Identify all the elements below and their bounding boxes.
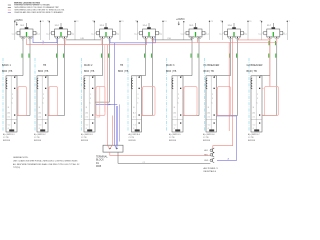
- breaker CB7 body: [264, 27, 283, 37]
- svg-text:T5: T5: [211, 21, 213, 23]
- wire CB7 left pin to TB: [260, 38, 270, 77]
- wire CB5 right pin to TB: [183, 38, 199, 115]
- breaker CB1 pins: [21, 36, 32, 38]
- svg-text:6: 6: [133, 128, 134, 130]
- wire riser left CB6: [222, 21, 223, 40]
- wire riser right CB5: [209, 21, 213, 40]
- legend row 3: [8, 10, 65, 12]
- wire CB7 right pin to TB: [262, 38, 277, 115]
- TB1 inner text: [8, 94, 14, 130]
- wire CB1 right pin to TB: [17, 38, 30, 115]
- svg-text:2: 2: [151, 39, 152, 41]
- TB7 inner text: [253, 94, 259, 130]
- wire red drop C: [228, 43, 230, 132]
- svg-text:A 4: A 4: [8, 112, 11, 115]
- svg-text:5 2: 5 2: [133, 125, 136, 127]
- svg-text:C# TB: C# TB: [81, 137, 87, 139]
- wire red bus F: [233, 38, 277, 42]
- TB5 bottom tag: [175, 129, 180, 131]
- notes block: [13, 156, 80, 169]
- wire C4B: [66, 38, 101, 40]
- svg-text:A(+) BKR B-1: A(+) BKR B-1: [3, 133, 15, 136]
- wire red bus B: [153, 38, 233, 42]
- TB2 terminal dots: [45, 77, 46, 124]
- breaker CB5 pin tags: [191, 39, 199, 41]
- svg-text:ALL NEW WIRE TERMINATIONS SHAL: ALL NEW WIRE TERMINATIONS SHALL USE RING…: [13, 163, 80, 166]
- svg-text:BANK 1: BANK 1: [2, 64, 12, 67]
- node feed CB3: [100, 23, 106, 27]
- svg-text:2: 2: [138, 94, 139, 96]
- svg-text:2: 2: [108, 39, 109, 41]
- breaker CB6 pins: [229, 36, 240, 38]
- svg-text:BKR/UB: BKR/UB: [81, 140, 89, 142]
- svg-text:2: 2: [236, 39, 237, 41]
- svg-text:6: 6: [174, 128, 175, 130]
- TB6 terminal dots: [214, 77, 215, 124]
- svg-text:MCB: MCB: [96, 166, 102, 168]
- TB2 inner text: [39, 94, 45, 130]
- svg-text:C4B: C4B: [80, 38, 85, 40]
- TB4 callout text: [129, 133, 141, 142]
- wire blue bus 1: [33, 37, 57, 43]
- svg-text:+24VDC: +24VDC: [176, 19, 185, 21]
- svg-text:3: 3: [178, 98, 179, 100]
- wire red bus 1: [27, 38, 147, 44]
- zone divider 3: [81, 58, 83, 131]
- breaker CB7 pins: [268, 36, 279, 38]
- svg-text:HH1: HH1: [204, 150, 208, 152]
- svg-text:BKR/UB: BKR/UB: [248, 140, 256, 142]
- zone divider 2: [34, 58, 36, 131]
- svg-text:2: 2: [63, 39, 64, 41]
- plug contact 3: [210, 158, 214, 162]
- zone divider 4: [127, 58, 129, 131]
- +24VDC label mid: [176, 19, 185, 25]
- breaker CB7 pin tags: [269, 39, 277, 41]
- wire riser left CB1: [14, 21, 15, 40]
- TB6 red ticks: [216, 88, 218, 116]
- svg-text:4 1: 4 1: [253, 117, 256, 119]
- coil TB3: [84, 78, 85, 89]
- svg-text:5 2: 5 2: [174, 125, 177, 127]
- coil TB2: [37, 78, 38, 89]
- terminal block TB5: [172, 76, 183, 132]
- wire red TB-M to plug: [110, 152, 210, 155]
- wire riser left CB5: [183, 21, 184, 40]
- svg-text:C# TB: C# TB: [34, 137, 40, 139]
- wire gray TB-M to plug: [118, 152, 210, 163]
- svg-text:BKR/UB: BKR/UB: [34, 140, 42, 142]
- svg-text:3: 3: [90, 98, 91, 100]
- breaker CB5 side labels: [181, 33, 209, 35]
- svg-text:C5B: C5B: [167, 38, 172, 40]
- svg-text:6: 6: [208, 128, 209, 130]
- svg-text:6: 6: [8, 128, 9, 130]
- svg-text:BKR | TB: BKR | TB: [84, 70, 95, 73]
- TB1 terminal dots: [14, 77, 15, 124]
- svg-text:L(+): L(+): [134, 33, 138, 35]
- TB1 bottom tag: [9, 129, 14, 131]
- svg-text:BKR/UB: BKR/UB: [203, 140, 211, 142]
- terminal block TB-M box: [103, 145, 123, 152]
- svg-text:6: 6: [39, 128, 40, 130]
- breaker CB4 body: [140, 27, 159, 37]
- wire red drop D: [213, 38, 233, 149]
- wire blue drop C: [118, 104, 120, 141]
- breaker CB3 pin tags: [101, 39, 109, 41]
- wire CB3 left pin to TB: [93, 38, 103, 77]
- svg-text:2: 2: [178, 94, 179, 96]
- svg-text:5 2: 5 2: [39, 125, 42, 127]
- wire number green 2-2: [62, 54, 65, 58]
- wire number green 1-2: [28, 54, 31, 58]
- wire riser right CB6: [247, 21, 251, 40]
- breaker CB1 side labels: [12, 33, 40, 35]
- svg-text:L(+): L(+): [12, 33, 16, 35]
- breaker CB4 side labels: [134, 33, 162, 35]
- +24VDC label left: [14, 20, 23, 26]
- svg-text:T7: T7: [289, 21, 291, 23]
- coil TB6: [206, 78, 207, 89]
- TB-M clamp marks: [109, 148, 118, 149]
- svg-text:C# TB: C# TB: [129, 137, 135, 139]
- zone divider 1: [2, 58, 4, 131]
- svg-text:4 1: 4 1: [8, 117, 11, 119]
- svg-text:TERMINAL: TERMINAL: [96, 155, 108, 158]
- revision box 1: [18, 87, 27, 116]
- svg-text:4 1: 4 1: [86, 117, 89, 119]
- svg-text:HH2: HH2: [204, 155, 208, 157]
- svg-text:L(+): L(+): [219, 33, 223, 35]
- svg-text:L(-): L(-): [116, 33, 119, 35]
- svg-text:REMOVE AND RELOCATE EXISTING W: REMOVE AND RELOCATE EXISTING WIRE TO BRE…: [15, 11, 64, 14]
- svg-text:BKR | TB: BKR | TB: [247, 70, 258, 73]
- svg-text:2: 2: [198, 39, 199, 41]
- TB7 terminal dots: [259, 77, 260, 124]
- svg-text:A 4: A 4: [39, 112, 42, 115]
- breaker CB3 pins: [101, 36, 112, 38]
- breaker CB1 body: [17, 27, 36, 37]
- svg-text:GND: GND: [204, 160, 209, 162]
- TB3 bottom tag: [87, 129, 92, 131]
- TB3 terminal dots: [92, 77, 93, 124]
- svg-text:A 4: A 4: [208, 112, 211, 115]
- svg-text:6: 6: [86, 128, 87, 130]
- wire riser right CB1: [40, 21, 44, 40]
- TB6 callout text: [203, 133, 215, 142]
- wire blue bus 2: [110, 37, 156, 43]
- wire red link G: [238, 38, 269, 40]
- svg-text:TB: TB: [120, 64, 124, 67]
- legend row 1: [8, 4, 51, 7]
- svg-text:2: 2: [212, 94, 213, 96]
- terminal block TB2: [37, 76, 48, 132]
- svg-text:A(+) BKR B-2: A(+) BKR B-2: [34, 133, 46, 136]
- svg-text:L(+): L(+): [181, 33, 185, 35]
- breaker CB6 body: [225, 27, 244, 37]
- svg-text:3: 3: [212, 98, 213, 100]
- wire CB6 right pin to TB: [217, 38, 238, 115]
- breaker CB6 pin tags: [229, 39, 237, 41]
- breaker CB2 pins: [56, 36, 67, 38]
- svg-text:BKR | TB: BKR | TB: [166, 70, 177, 73]
- TB-M blue entries: [115, 145, 118, 149]
- svg-text:GENERAL NOTE:: GENERAL NOTE:: [13, 156, 29, 159]
- svg-text:4 1: 4 1: [39, 117, 42, 119]
- coil TB4: [131, 78, 132, 89]
- zone divider 6: [204, 58, 206, 131]
- wire number green 3-2: [107, 54, 110, 58]
- TB4 inner text: [133, 94, 139, 130]
- svg-text:T2: T2: [76, 21, 78, 23]
- svg-text:BKR/UB: BKR/UB: [169, 140, 177, 142]
- TB6 inner text: [208, 94, 214, 130]
- breaker CB4 pins: [144, 36, 155, 38]
- revision box 5: [184, 87, 197, 116]
- svg-text:5 2: 5 2: [86, 125, 89, 127]
- node feed CB4: [143, 23, 149, 27]
- TB1 red ticks: [16, 88, 18, 116]
- node feed CB6: [228, 23, 234, 27]
- wire CB7 left pin red: [269, 38, 271, 86]
- svg-text:C# TB: C# TB: [203, 137, 209, 139]
- TB4 bottom tag: [135, 129, 140, 131]
- svg-text:A(+) BKR B-7: A(+) BKR B-7: [248, 133, 260, 136]
- breaker CB3 body: [97, 27, 116, 37]
- wire CB1 left pin to TB: [15, 38, 23, 77]
- wire number green 5-1: [190, 54, 193, 58]
- zone divider 5: [166, 58, 168, 131]
- wire C5B link: [153, 38, 192, 40]
- revision box 3: [96, 87, 105, 116]
- terminal block TB4: [132, 76, 142, 132]
- svg-text:L(-): L(-): [244, 33, 247, 35]
- wire riser right CB7: [287, 21, 291, 40]
- wire number green 6-1: [228, 54, 231, 58]
- svg-text:T3: T3: [121, 21, 123, 23]
- svg-text:L(-): L(-): [37, 33, 40, 35]
- svg-text:L(+): L(+): [91, 33, 95, 35]
- svg-text:4 1: 4 1: [208, 117, 211, 119]
- svg-text:G2 BREAKER: G2 BREAKER: [247, 64, 263, 67]
- TB7 bottom tag: [254, 129, 259, 131]
- wire number green 6-2: [235, 54, 238, 58]
- svg-text:C# TB: C# TB: [3, 137, 9, 139]
- svg-text:A 4: A 4: [86, 112, 89, 115]
- svg-text:AUX POWER #1: AUX POWER #1: [204, 167, 218, 170]
- wire number green 7-2: [274, 54, 277, 58]
- coil TB1: [6, 78, 7, 89]
- wire number green 2-1: [55, 54, 58, 58]
- revision box 6: [218, 87, 231, 116]
- wire CB4 right pin to TB: [142, 38, 153, 115]
- wire blue drop A: [114, 43, 116, 146]
- svg-text:L(+): L(+): [46, 33, 50, 35]
- svg-text:C# TB: C# TB: [248, 137, 254, 139]
- wire number green 7-1: [267, 54, 270, 58]
- wire riser left CB4: [137, 21, 138, 40]
- svg-text:A 4: A 4: [174, 112, 177, 115]
- wire CB2 right pin to TB: [48, 38, 65, 115]
- wire blue drop B: [116, 106, 118, 145]
- zone divider 7: [248, 58, 250, 131]
- revision box 7: [265, 87, 279, 116]
- TB-M red entries: [107, 145, 112, 149]
- wire number green 5-2: [197, 54, 200, 58]
- wire CB3 right pin to TB: [95, 38, 110, 102]
- TB5 terminal dots: [180, 77, 181, 124]
- TB-M label: [96, 155, 108, 168]
- coil TB7: [251, 78, 252, 89]
- svg-text:3: 3: [138, 98, 139, 100]
- terminal block TB3: [84, 76, 95, 132]
- svg-text:T6: T6: [249, 21, 251, 23]
- wire CB4 left pin to TB: [140, 38, 146, 77]
- wire blue tap TB3: [96, 104, 117, 106]
- svg-text:2: 2: [12, 94, 13, 96]
- TB5 red ticks: [182, 88, 184, 116]
- svg-text:2: 2: [90, 94, 91, 96]
- svg-text:USE #14 AWG SIS WIRE FOR ALL N: USE #14 AWG SIS WIRE FOR ALL NEW 24VDC C…: [13, 159, 78, 162]
- svg-text:BKR/UB: BKR/UB: [3, 140, 11, 142]
- svg-text:L(-): L(-): [71, 33, 74, 35]
- TB3 callout text: [81, 133, 93, 142]
- svg-text:H1 BREAKER: H1 BREAKER: [204, 64, 220, 67]
- svg-text:4 1: 4 1: [133, 117, 136, 119]
- svg-text:5 2: 5 2: [8, 125, 11, 127]
- coil TB5: [172, 78, 173, 89]
- breaker CB1 pin tags: [22, 39, 30, 41]
- wire number green 1-1: [21, 54, 24, 58]
- svg-text:TYP(16): TYP(16): [13, 167, 20, 169]
- wire red drop B: [111, 116, 113, 146]
- TB3 red ticks: [94, 88, 96, 116]
- plug contact 2: [210, 153, 214, 157]
- wire number green 4-1: [143, 54, 146, 58]
- breaker CB6 side labels: [219, 33, 247, 35]
- wire riser right CB2: [74, 21, 78, 40]
- svg-text:MAIN 2: MAIN 2: [84, 64, 93, 67]
- wire CB6 left pin to TB: [215, 38, 231, 77]
- revision box 2: [49, 87, 58, 116]
- wire red drop A: [106, 45, 108, 146]
- wire number green 7 high: [269, 41, 276, 45]
- legend row 2: [8, 6, 60, 9]
- wire riser right CB4: [162, 21, 166, 40]
- wire riser left CB3: [94, 21, 95, 40]
- breaker CB5 body: [186, 27, 205, 37]
- node feed CB1: [20, 23, 26, 27]
- TB5 inner text: [174, 94, 180, 130]
- svg-text:MAIN 3: MAIN 3: [166, 64, 175, 67]
- svg-text:A(+) BKR B-5: A(+) BKR B-5: [169, 133, 181, 136]
- svg-text:L(+): L(+): [259, 33, 263, 35]
- TB2 red ticks: [47, 88, 49, 116]
- breaker CB5 pins: [190, 36, 201, 38]
- svg-text:A(+) BKR B-6: A(+) BKR B-6: [203, 133, 215, 136]
- wire red drop E3: [104, 45, 106, 112]
- svg-text:RECEPTACLE: RECEPTACLE: [204, 170, 217, 173]
- plug caption: [204, 167, 218, 173]
- wire riser left CB7: [261, 21, 262, 40]
- svg-text:BKR | TB: BKR | TB: [204, 70, 215, 73]
- TB2 bottom tag: [40, 129, 45, 131]
- wire riser right CB3: [119, 21, 123, 40]
- wire number green 3-1: [100, 54, 103, 58]
- breaker CB3 side labels: [91, 33, 119, 35]
- legend row 4: [8, 11, 64, 14]
- svg-text:3: 3: [257, 98, 258, 100]
- TB7 callout text: [248, 133, 260, 142]
- svg-text:3: 3: [12, 98, 13, 100]
- TB4 red ticks: [141, 88, 143, 116]
- svg-text:T4: T4: [164, 21, 166, 23]
- svg-text:2: 2: [43, 94, 44, 96]
- TB4 terminal dots: [139, 77, 140, 124]
- wire red elbow TB3: [96, 87, 100, 118]
- svg-text:BKR | TB: BKR | TB: [2, 70, 13, 73]
- plug labels: [204, 150, 209, 162]
- svg-text:L(-): L(-): [206, 33, 209, 35]
- svg-text:BKR | TB: BKR | TB: [38, 70, 49, 73]
- TB3 inner text: [86, 94, 92, 130]
- TB7 red ticks: [261, 88, 263, 116]
- node feed CB7: [267, 23, 273, 27]
- wire CB2 left pin to TB: [46, 38, 58, 77]
- svg-text:A(+) BKR B-4: A(+) BKR B-4: [129, 133, 141, 136]
- terminal block TB7: [251, 76, 262, 132]
- svg-text:5 2: 5 2: [208, 125, 211, 127]
- node feed CB2: [55, 23, 61, 27]
- svg-text:2: 2: [257, 94, 258, 96]
- svg-text:3: 3: [43, 98, 44, 100]
- wire number green 4-2: [150, 54, 153, 58]
- wire CB5 left pin to TB: [181, 38, 192, 77]
- breaker CB2 pin tags: [56, 39, 64, 41]
- node feed CB5: [189, 23, 195, 27]
- svg-text:5 2: 5 2: [253, 125, 256, 127]
- TB6 bottom tag: [209, 129, 214, 131]
- svg-text:TB: TB: [43, 64, 47, 67]
- breaker CB2 body: [52, 27, 71, 37]
- breaker CB2 side labels: [46, 33, 74, 35]
- svg-text:BLOCK: BLOCK: [96, 160, 104, 162]
- svg-text:L(-): L(-): [283, 33, 286, 35]
- svg-text:4 1: 4 1: [174, 117, 177, 119]
- svg-text:T1: T1: [42, 21, 44, 23]
- svg-text:BKR/UB: BKR/UB: [129, 140, 137, 142]
- wire riser left CB2: [49, 21, 50, 40]
- svg-text:A 4: A 4: [253, 112, 256, 115]
- terminal block TB1: [6, 76, 17, 132]
- svg-text:L(-): L(-): [159, 33, 162, 35]
- breaker CB4 pin tags: [144, 39, 152, 41]
- TB2 callout text: [34, 133, 46, 142]
- svg-text:C# TB: C# TB: [169, 137, 175, 139]
- svg-text:A 4: A 4: [133, 112, 136, 115]
- plug contact 1: [210, 148, 214, 152]
- svg-text:6: 6: [253, 128, 254, 130]
- revision box 4: [143, 87, 156, 116]
- TB5 callout text: [169, 133, 181, 142]
- terminal block TB6: [206, 76, 217, 132]
- svg-text:2: 2: [29, 39, 30, 41]
- TB1 callout text: [3, 133, 15, 142]
- wire blue TB6 out: [217, 116, 237, 160]
- svg-text:BKR | TB: BKR | TB: [118, 70, 129, 73]
- svg-text:A(+) BKR B-3: A(+) BKR B-3: [81, 133, 93, 136]
- breaker CB7 side labels: [259, 33, 287, 35]
